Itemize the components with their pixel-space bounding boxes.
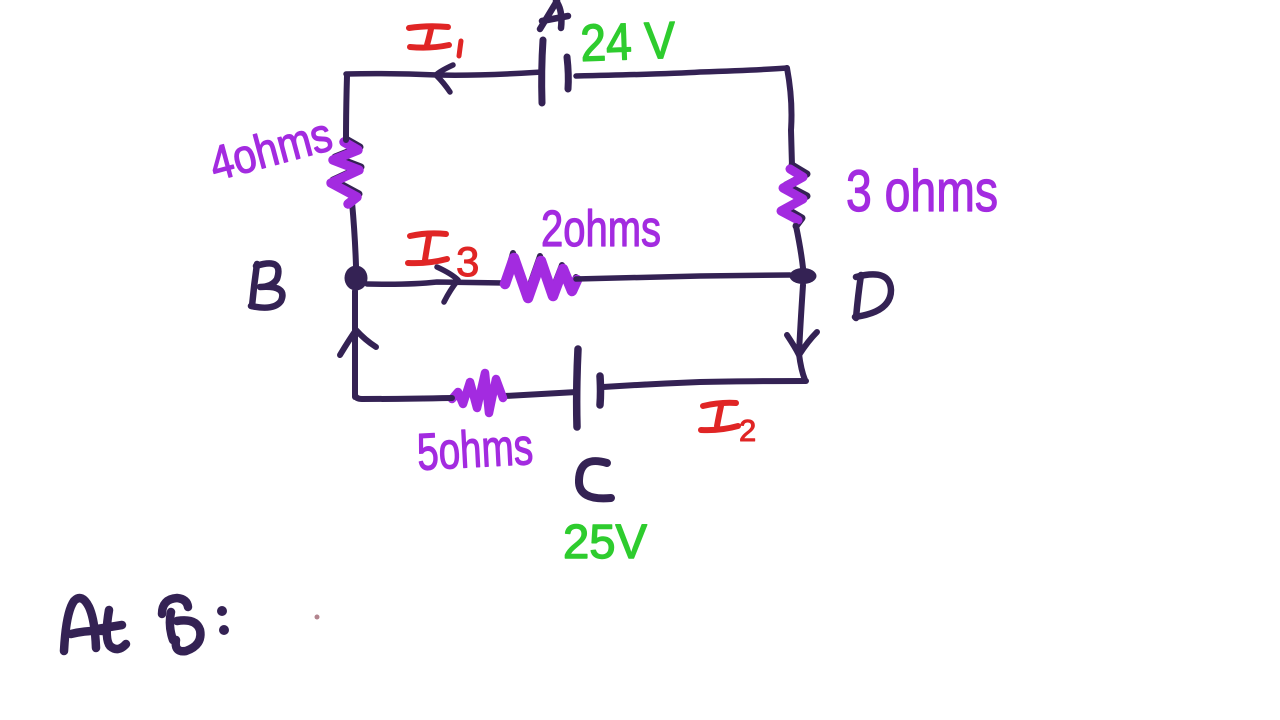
node C label <box>579 461 611 498</box>
svg-text:25V: 25V <box>563 516 647 569</box>
label I1 <box>409 26 461 56</box>
wire middle-right segment (resistor to node D) <box>576 275 790 279</box>
wire top-right segment (A to top-right corner) <box>576 68 787 76</box>
resistor 5 ohms (purple zigzag) <box>452 373 503 413</box>
annotation At B: <box>64 598 200 651</box>
label I3 <box>408 233 447 263</box>
colon of At B: <box>217 606 229 635</box>
wire right vertical below D (to bottom-right corner) <box>799 285 805 380</box>
wire top-left segment (A to top-left corner) <box>346 72 542 75</box>
battery C right (short) plate <box>596 376 604 405</box>
resistor 3 ohms (dark underlay) <box>785 165 807 226</box>
svg-text:24 V: 24 V <box>579 12 676 73</box>
resistor 3 ohms (purple overlay) <box>781 169 803 220</box>
current arrow (up, toward B on left wire) <box>340 330 376 355</box>
wire bottom-right segment (corner to battery C) <box>603 381 806 387</box>
current arrow I2 (pointing down on right wire) <box>787 332 817 355</box>
wire right vertical lower (resistor to node D) <box>796 226 803 268</box>
node A label <box>540 1 568 29</box>
resistor 4 ohms (dark underlay) <box>333 139 361 202</box>
svg-text:2ohms: 2ohms <box>541 200 661 257</box>
resistor 4 ohms (purple overlay) <box>331 142 359 204</box>
wire middle segment (node B to 2-ohm resistor) <box>367 282 505 284</box>
resistor 2 ohms (dark underlay) <box>505 253 576 293</box>
battery C left (long) plate <box>577 349 578 427</box>
battery A left (long) plate <box>542 40 543 103</box>
wire left vertical above B (node B up to 4-ohm resistor) <box>352 202 356 266</box>
stray dot mark <box>315 615 320 620</box>
resistor 2 ohms (purple overlay) <box>505 258 577 298</box>
svg-text:4ohms: 4ohms <box>204 108 337 191</box>
svg-text:3 ohms: 3 ohms <box>846 159 998 224</box>
svg-text:3: 3 <box>456 238 479 285</box>
svg-text:2: 2 <box>739 413 756 448</box>
wire bottom-left run (resistor to bottom-left corner) <box>355 395 452 399</box>
wire right vertical upper (corner down to 3-ohm resistor) <box>787 68 792 166</box>
junction node B (dot) <box>345 266 368 291</box>
svg-text:5ohms: 5ohms <box>416 418 535 482</box>
current arrow I3 (pointing right on middle wire) <box>437 267 458 302</box>
node D label <box>855 274 891 318</box>
battery A right (short) plate <box>567 57 568 89</box>
wire left vertical upper (top-left corner down to resistor) <box>346 76 347 140</box>
wire left vertical (bottom-left corner up to node B) <box>352 291 358 397</box>
label I2 <box>701 403 738 430</box>
wire bottom-left segment (battery C to 5-ohm resistor) <box>505 392 577 396</box>
node B label <box>251 263 282 307</box>
current arrow I1 (pointing left on top wire) <box>436 65 453 92</box>
junction node D (dot) <box>790 268 817 284</box>
